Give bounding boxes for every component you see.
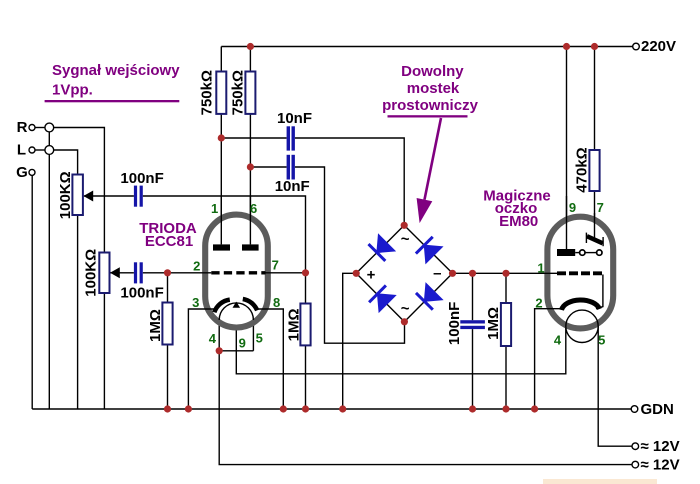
node bus/1M1 (164, 405, 171, 412)
svg-text:1Vpp.: 1Vpp. (52, 82, 93, 99)
svg-text:≈ 12V: ≈ 12V (641, 457, 680, 474)
EM80 target screen bar pin 9 (557, 249, 575, 256)
svg-text:1: 1 (537, 261, 544, 276)
terminal 12V lower (632, 461, 639, 468)
wire anode-2 branch (rail to tube pin 6 through R 750k #2) (249, 47, 251, 245)
svg-text:2: 2 (193, 258, 200, 273)
wire ECC81 pin 9 center tap to EM80 pin 4 (236, 307, 566, 374)
svg-text:Dowolny: Dowolny (401, 63, 464, 80)
EM80 anode ring 1 (580, 250, 585, 255)
potentiometer 100K #2 body (99, 253, 109, 294)
ECC81 cathode arc right pin 8 (243, 299, 257, 310)
terminal G (29, 169, 35, 175)
magic eye EM80 envelope (547, 217, 613, 329)
node bus/100nF3 (469, 405, 476, 412)
svg-text:EM80: EM80 (499, 213, 538, 230)
svg-text:100nF: 100nF (120, 284, 163, 301)
node bus/pin3 (185, 405, 192, 412)
value 1M #3 (485, 307, 502, 340)
svg-text:Sygnał wejściowy: Sygnał wejściowy (52, 62, 180, 79)
wire anode-1 branch (rail to tube pin 1 through R 750k #1) (220, 47, 222, 245)
svg-text:7: 7 (597, 200, 604, 215)
wire C 100nF #3 leads (472, 273, 474, 320)
wire EM80 pin 2 to ground bus (535, 309, 563, 409)
svg-text:9: 9 (239, 336, 246, 351)
svg-text:7: 7 (272, 257, 279, 272)
value 100nF #3 (446, 302, 463, 345)
value 1M #1 (147, 309, 164, 342)
node bus/bridge plus (339, 405, 346, 412)
svg-text:4: 4 (554, 333, 562, 348)
wire C 10nF #1 to bridge top vertex (295, 138, 404, 225)
wire R input row to pot2 top (35, 127, 45, 129)
node grid1/1M1 (164, 269, 171, 276)
diode D3 top-right (414, 235, 443, 264)
diode D4 bottom-right (414, 282, 443, 311)
value 100K #2 (83, 249, 100, 297)
node bridge plus (353, 270, 360, 277)
wire C 10nF #2 to bridge bottom vertex (295, 167, 405, 343)
wire ECC81 pin 8 to ground bus (257, 309, 284, 409)
svg-text:~: ~ (401, 231, 410, 248)
wire pot1 wiper row to corner down to pin-7 node (84, 195, 134, 197)
wire ECC81 pin 3 to ground bus (188, 309, 215, 409)
node rail/470k (591, 43, 598, 50)
svg-text:220V: 220V (641, 38, 676, 55)
svg-text:5: 5 (598, 333, 605, 348)
svg-text:8: 8 (273, 295, 280, 310)
node anode2/10nF2 (247, 163, 254, 170)
svg-text:ECC81: ECC81 (145, 233, 193, 250)
terminal L jack (29, 147, 35, 153)
capacitor 100nF #3 plates (460, 320, 485, 323)
wire ECC81 pin 1 lead into tube (220, 196, 222, 244)
svg-text:9: 9 (569, 200, 576, 215)
resistor 1M #2 (300, 304, 310, 346)
wire anode-1 to C 10nF #1 (221, 137, 286, 139)
svg-text:10nF: 10nF (277, 110, 312, 127)
node bus/1M3 (502, 405, 509, 412)
wire heater pin 4 down to ~12V lower line (219, 351, 632, 465)
node bridge top AC (401, 222, 408, 229)
ECC81 anode plate 2 (242, 244, 259, 250)
value 470k (573, 147, 590, 192)
terminal GDN (631, 406, 638, 413)
svg-text:–: – (433, 265, 441, 282)
svg-text:≈ 12V: ≈ 12V (641, 438, 680, 455)
node bus/1M2 (302, 405, 309, 412)
svg-text:G: G (16, 164, 28, 181)
wire 1M #3 leads (505, 273, 507, 303)
triode ECC81 envelope (205, 215, 268, 328)
EM80 grid dashed line pin 1 (557, 271, 604, 275)
svg-text:100nF: 100nF (120, 170, 163, 187)
svg-text:10nF: 10nF (275, 178, 310, 195)
node minus/1M3 (502, 270, 509, 277)
svg-text:750kΩ: 750kΩ (198, 70, 215, 115)
wire anode-2 to C 10nF #2 (250, 166, 286, 168)
svg-text:2: 2 (535, 296, 542, 311)
wire 1M #1 leads (167, 273, 169, 303)
watermark remnant bottom right (543, 479, 657, 484)
wire bar to ring links (575, 252, 579, 254)
wire bridge - vertex to EM80 pin 1 (453, 272, 558, 274)
svg-text:3: 3 (192, 295, 199, 310)
node heater tie 4-5 (216, 347, 223, 354)
terminal R jack (29, 125, 35, 131)
svg-text:5: 5 (256, 331, 263, 346)
value 1M #2 (285, 308, 302, 341)
wire EM80 pin 9 from rail (566, 47, 568, 250)
resistor 750k #2 (245, 72, 255, 114)
potentiometer 100K #1 body (72, 175, 83, 216)
EM80 cathode arc pin 2 (562, 300, 600, 310)
ECC81 cathode arc left pin 3 (214, 300, 230, 313)
EM80 heater circle pins 4/5 (566, 310, 598, 342)
value 750k #1 (198, 70, 215, 115)
wire ECC81 pin 6 lead into tube (249, 196, 251, 244)
value 750k #2 (230, 70, 247, 115)
diode D1 top-left (367, 233, 396, 262)
node bus/pin8 (280, 405, 287, 412)
svg-text:1: 1 (211, 201, 218, 216)
EM80 grid to cathode hook (596, 275, 603, 309)
potentiometer 100K #1 wiper arrow (83, 191, 93, 202)
wire G input down to ground bus (31, 175, 33, 409)
ECC81 heater circle (219, 303, 253, 320)
wire R/L jack sleeve to ground bus (48, 132, 50, 409)
svg-text:100nF: 100nF (446, 302, 463, 345)
ECC81 grid dashed line pins 2/7 (211, 271, 265, 274)
resistor 1M #1 (162, 303, 172, 345)
svg-text:100KΩ: 100KΩ (83, 249, 100, 297)
svg-text:R: R (17, 119, 28, 136)
wire bridge + vertex to ground bus (343, 273, 357, 409)
svg-text:L: L (17, 142, 26, 159)
wire EM80 pin 5 to ~12V upper line (598, 326, 632, 446)
node minus/100nF3 (469, 270, 476, 277)
diode D2 bottom-left (367, 284, 396, 313)
node rail/EM80 pin9 (563, 43, 570, 50)
arrow to bridge (425, 118, 442, 200)
resistor 1M #3 (501, 303, 511, 346)
svg-text:GDN: GDN (641, 401, 674, 418)
svg-text:1MΩ: 1MΩ (485, 307, 502, 340)
ECC81 anode plate 1 (213, 244, 230, 250)
terminal 12V upper (632, 443, 639, 450)
svg-text:6: 6 (250, 201, 257, 216)
wire EM80 pin 7 lead into tube (594, 213, 596, 238)
wire EM80 pin 7 branch through R 470k (594, 47, 596, 151)
ECC81 heater apex notch pin 9 (233, 302, 241, 308)
wire EM80 pin 9 lead into tube (566, 196, 568, 249)
node anode1/10nF1 (218, 134, 225, 141)
resistor 470k (589, 150, 599, 191)
svg-text:750kΩ: 750kΩ (230, 70, 247, 115)
capacitor 10nF #2 plates (287, 155, 290, 180)
svg-text:470kΩ: 470kΩ (573, 147, 590, 192)
svg-text:+: + (367, 267, 376, 284)
svg-text:prostowniczy: prostowniczy (382, 97, 479, 114)
potentiometer 100K #2 wiper arrow (110, 267, 120, 278)
svg-text:~: ~ (401, 301, 410, 318)
wire heater tie pins 4-5 ECC81 (218, 320, 220, 351)
EM80 anode ring 2 (597, 250, 602, 255)
node bus/EM80 pin2 (531, 405, 538, 412)
svg-text:100KΩ: 100KΩ (57, 171, 74, 219)
node bridge bottom AC (401, 318, 408, 325)
svg-text:mostek: mostek (407, 80, 460, 97)
wire L input row to pot1 top (35, 149, 45, 151)
wire ground bus GDN (32, 408, 631, 410)
wire 1M #2 leads (305, 273, 307, 304)
node grid2/1M2 (302, 269, 309, 276)
wire pot2 bottom to ground bus (103, 293, 105, 409)
svg-text:1MΩ: 1MΩ (147, 309, 164, 342)
node rail/750k#2 (247, 43, 254, 50)
capacitor 100nF #2 plates (134, 262, 137, 283)
capacitor 100nF #1 plates (134, 186, 137, 207)
EM80 deflector electrode pin 7 (585, 233, 587, 243)
wire grid-2 row: tube pin 7 to node (266, 272, 306, 274)
svg-text:1MΩ: 1MΩ (285, 308, 302, 341)
terminal 220V (633, 43, 640, 50)
svg-text:4: 4 (209, 331, 217, 346)
capacitor 10nF #1 plates (287, 126, 290, 150)
resistor 750k #1 (216, 72, 226, 114)
wire grid-1 row: pot2 wiper to tube pin 2 (111, 272, 134, 274)
node bridge minus (449, 270, 456, 277)
bridge rectifier diamond (356, 225, 452, 321)
wire 220V top rail (221, 46, 632, 48)
wire pot1 bottom to ground bus (77, 215, 79, 409)
value 100K #1 (57, 171, 74, 219)
